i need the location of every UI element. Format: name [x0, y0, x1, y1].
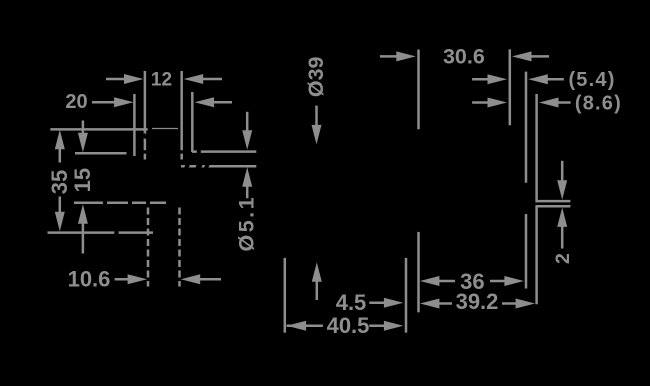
svg-text:20: 20 — [65, 91, 87, 113]
dimension 36 — [434, 280, 510, 283]
svg-text:35: 35 — [47, 170, 72, 194]
left view: bottom line — [48, 231, 154, 234]
svg-text:(8.6): (8.6) — [575, 92, 622, 114]
left view: center line (dash-dot) — [74, 202, 166, 205]
right view face line x=526 — [525, 72, 528, 289]
dimension 2 tab line upper — [536, 200, 571, 203]
svg-text:Ø39: Ø39 — [304, 56, 328, 97]
svg-text:10.6: 10.6 — [68, 266, 111, 291]
dimension (8.6) — [472, 101, 570, 104]
dimension 2 tab line lower — [536, 205, 571, 208]
extension line 12-left x=144.9 — [144, 71, 147, 160]
right view face line x=509.8 — [509, 49, 512, 125]
left view: body top line C — [181, 165, 256, 168]
dimension 39.2 — [434, 302, 521, 305]
dimension (5.4) — [472, 78, 564, 81]
extension line 12-right x=181.7 — [180, 71, 183, 160]
left view: knob top line B — [192, 150, 256, 153]
svg-text:2: 2 — [552, 253, 574, 264]
dimension 4.5 — [369, 302, 389, 305]
svg-text:15: 15 — [70, 168, 95, 192]
svg-text:30.6: 30.6 — [443, 45, 485, 69]
left view: top face line — [50, 128, 147, 131]
right view face line x=536.6 — [535, 94, 538, 304]
extension line 20-left x=134.4 — [133, 94, 136, 156]
svg-text:12: 12 — [151, 70, 172, 91]
dimension 15 — [82, 121, 85, 254]
hidden line shaft left (dashed) — [147, 208, 150, 287]
dimension 30.6 — [380, 55, 549, 58]
dimension 12 — [106, 78, 222, 81]
diameter 39 bottom arrow shaft — [316, 277, 319, 301]
dimension 40.5 — [287, 325, 389, 328]
dimension 35 — [59, 144, 62, 217]
right view left edge extension line — [417, 50, 420, 313]
diameter 39 top arrow — [315, 106, 318, 132]
svg-text:40.5: 40.5 — [327, 313, 370, 338]
svg-text:Ø5.1: Ø5.1 — [235, 195, 259, 252]
dimension 10.6 — [115, 278, 221, 281]
left view: left ledge top line — [75, 152, 127, 155]
svg-text:39.2: 39.2 — [456, 289, 499, 314]
dimension diameter 5.1 upper arrow — [246, 112, 249, 137]
svg-text:4.5: 4.5 — [336, 290, 367, 315]
dimension 20 — [92, 101, 232, 104]
dimension diameter 5.1 lower arrow shaft — [246, 181, 249, 198]
hidden line shaft right (dashed) — [178, 208, 181, 287]
svg-text:(5.4): (5.4) — [568, 69, 615, 91]
extension line 20-right x=192.3 — [191, 92, 194, 152]
middle view right extension line — [405, 258, 408, 333]
dimension 2 lower arrow shaft — [561, 222, 564, 249]
middle view left extension line — [284, 258, 287, 333]
dimension 2 upper arrow — [561, 161, 564, 185]
part outline occlusions (black) — [142, 133, 210, 171]
